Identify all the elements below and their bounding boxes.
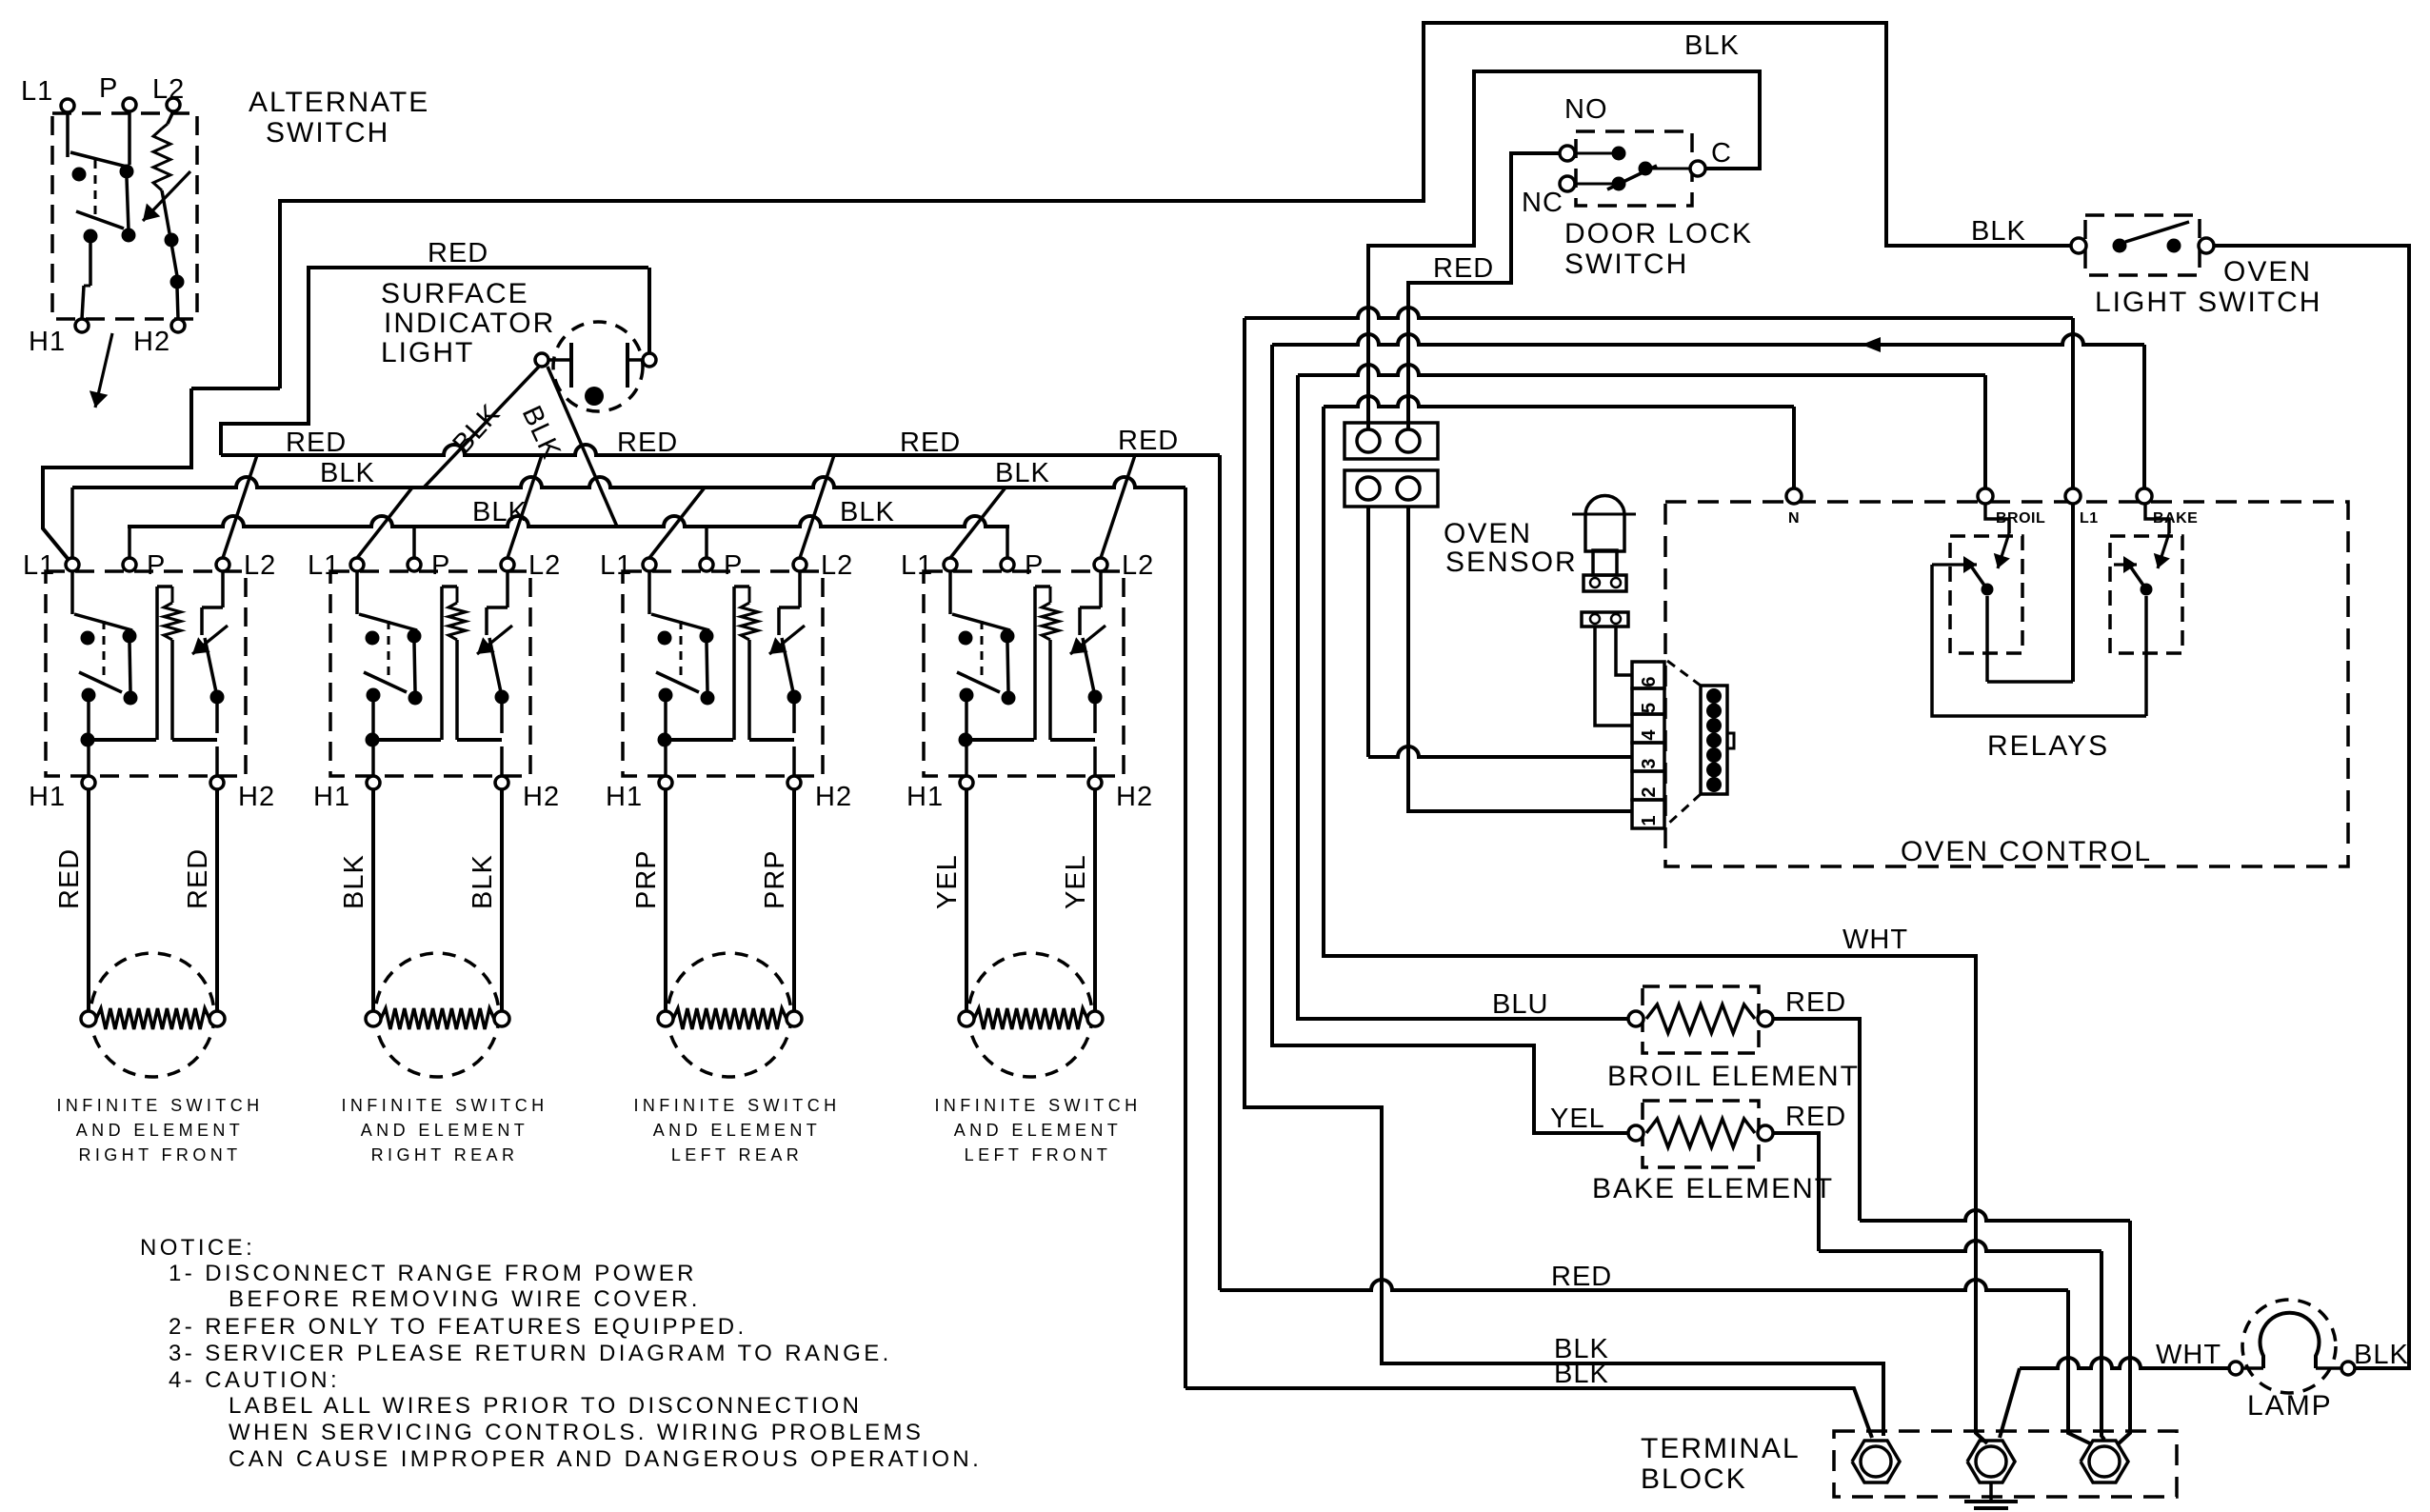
svg-text:RIGHT REAR: RIGHT REAR: [371, 1145, 519, 1164]
svg-text:L2: L2: [244, 550, 276, 581]
svg-text:NOTICE:: NOTICE:: [140, 1235, 255, 1261]
label left rear: [634, 1096, 841, 1164]
svg-text:SWITCH: SWITCH: [1564, 249, 1688, 280]
oven control box: [1665, 502, 2348, 866]
svg-text:6: 6: [1639, 676, 1660, 686]
label BLK bus2 a: [472, 497, 528, 527]
svg-text:4: 4: [1639, 729, 1660, 741]
label LAMP: [2247, 1390, 2333, 1422]
label BLK bus2 b: [840, 497, 895, 527]
wire bus L1 relay: [1245, 308, 2073, 487]
element right rear: [366, 789, 509, 1077]
label right rear: [342, 1096, 548, 1164]
svg-text:YEL: YEL: [1550, 1104, 1605, 1134]
wire bus BROIL relay: [1298, 365, 1985, 487]
svg-text:P: P: [147, 550, 166, 581]
svg-text:RED: RED: [900, 428, 961, 458]
label OVEN SENSOR: [1444, 518, 1578, 578]
wire WHT to lamp: [2000, 1358, 2229, 1438]
svg-text:P: P: [1025, 550, 1044, 581]
svg-text:H2: H2: [133, 327, 170, 357]
wire BLK bus 1: [72, 477, 1185, 487]
svg-text:SWITCH: SWITCH: [266, 117, 389, 149]
svg-text:BLK: BLK: [2354, 1340, 2409, 1370]
wire BLK diagonal 2: [548, 367, 617, 527]
broil element: [1628, 986, 1773, 1053]
svg-text:P: P: [431, 550, 450, 581]
svg-text:L1: L1: [901, 550, 933, 581]
svg-text:AND ELEMENT: AND ELEMENT: [653, 1121, 821, 1140]
svg-text:BLOCK: BLOCK: [1641, 1463, 1747, 1495]
svg-text:LEFT REAR: LEFT REAR: [671, 1145, 803, 1164]
wire RED bus drop: [1218, 455, 1222, 1290]
wire sensor pin4: [1595, 627, 1632, 726]
label ALTERNATE SWITCH: [249, 87, 429, 149]
label left front: [935, 1096, 1142, 1164]
svg-text:DOOR LOCK: DOOR LOCK: [1564, 218, 1753, 249]
svg-text:BLK: BLK: [1971, 216, 2026, 247]
svg-text:LIGHT SWITCH: LIGHT SWITCH: [2095, 287, 2321, 318]
label BLK door lock: [1684, 30, 1740, 61]
wire BLK diagonal 1: [424, 367, 539, 487]
wire BLK bus 1 drop: [1184, 487, 1187, 1388]
svg-text:LABEL ALL WIRES PRIOR TO DISCO: LABEL ALL WIRES PRIOR TO DISCONNECTION: [229, 1393, 862, 1419]
svg-text:2: 2: [1639, 786, 1660, 797]
svg-text:H2: H2: [238, 782, 275, 812]
label OVEN LIGHT SWITCH: [2095, 256, 2321, 318]
label right front: [57, 1096, 264, 1164]
label RED bake: [1785, 1102, 1846, 1132]
svg-text:PRP: PRP: [631, 849, 662, 909]
svg-text:BLK: BLK: [339, 854, 369, 909]
label BAKE ELEMENT: [1592, 1173, 1834, 1204]
svg-text:RED: RED: [286, 428, 347, 458]
svg-text:3- SERVICER PLEASE RETURN DIAG: 3- SERVICER PLEASE RETURN DIAGRAM TO RAN…: [169, 1341, 892, 1366]
svg-text:CAN CAUSE IMPROPER AND DANGERO: CAN CAUSE IMPROPER AND DANGEROUS OPERATI…: [229, 1446, 982, 1472]
svg-text:P: P: [724, 550, 743, 581]
label BLK lamp: [2354, 1340, 2409, 1370]
svg-text:INFINITE SWITCH: INFINITE SWITCH: [634, 1096, 841, 1115]
svg-text:H1: H1: [29, 327, 66, 357]
svg-text:YEL: YEL: [932, 854, 963, 909]
label BLK diag 1: [447, 398, 506, 459]
label RED indicator wire: [428, 238, 488, 269]
notice text: [140, 1235, 982, 1472]
svg-text:L2: L2: [528, 550, 561, 581]
oven sensor: [1572, 496, 1636, 627]
label RED bus 3: [900, 428, 961, 458]
label RED wires: [54, 848, 213, 909]
terminal block: [1834, 1431, 2177, 1497]
terminal BAKE: [2137, 488, 2152, 504]
svg-text:BLK: BLK: [320, 458, 375, 488]
label BLK bottom 2: [1554, 1359, 1609, 1389]
svg-text:RED: RED: [1433, 253, 1494, 284]
wire light switch to lamp: [2214, 246, 2409, 1368]
svg-text:WHT: WHT: [1842, 925, 1908, 955]
svg-text:RED: RED: [617, 428, 678, 458]
svg-text:BROIL ELEMENT: BROIL ELEMENT: [1607, 1061, 1860, 1092]
label YEL wires: [932, 854, 1091, 909]
wire BLK2 to terminal: [1185, 1388, 1872, 1438]
connector header: [1667, 661, 1734, 825]
wire pin1: [1408, 507, 1632, 811]
wire bake red: [1773, 1133, 2104, 1440]
svg-text:OVEN: OVEN: [1444, 518, 1532, 549]
svg-text:BLK: BLK: [840, 497, 895, 527]
svg-text:3: 3: [1639, 758, 1660, 768]
wire C to connector: [1368, 71, 1760, 429]
label OVEN CONTROL: [1901, 836, 2152, 867]
svg-text:BLK: BLK: [468, 854, 498, 909]
wire broil red: [1773, 1019, 2130, 1443]
svg-text:L1: L1: [23, 550, 55, 581]
svg-text:RELAYS: RELAYS: [1987, 730, 2109, 762]
wire switch feeds: [72, 455, 1135, 558]
wire top run to door lock: [280, 23, 2079, 388]
svg-text:WHT: WHT: [2156, 1340, 2221, 1370]
svg-text:RED: RED: [183, 848, 213, 909]
label YEL: [1550, 1104, 1605, 1134]
svg-text:INFINITE SWITCH: INFINITE SWITCH: [342, 1096, 548, 1115]
label PRP wires: [631, 849, 790, 909]
svg-text:L2: L2: [821, 550, 853, 581]
terminal BROIL: [1978, 488, 1993, 504]
svg-text:1- DISCONNECT RANGE FROM POWER: 1- DISCONNECT RANGE FROM POWER: [169, 1261, 697, 1286]
svg-text:OVEN: OVEN: [2223, 256, 2312, 288]
svg-text:L1: L1: [600, 550, 632, 581]
alternate switch: [52, 98, 197, 332]
arrow alternate switch pointer: [90, 333, 112, 408]
svg-text:H1: H1: [606, 782, 643, 812]
label BLK bus1 b: [995, 458, 1050, 488]
svg-text:N: N: [1788, 510, 1800, 527]
label RELAYS: [1987, 730, 2109, 762]
svg-text:TERMINAL: TERMINAL: [1641, 1433, 1801, 1464]
connector blocks: [1344, 423, 1438, 507]
label BLU: [1492, 989, 1548, 1020]
svg-text:LEFT FRONT: LEFT FRONT: [965, 1145, 1112, 1164]
svg-text:5: 5: [1639, 703, 1660, 713]
terminal L1: [2065, 488, 2081, 504]
labels relay terminals: [1788, 510, 2198, 527]
wire bus N: [1324, 396, 1794, 487]
door lock switch: [1560, 131, 1705, 206]
svg-text:RED: RED: [1785, 1102, 1846, 1132]
wire indicator step: [191, 387, 280, 390]
svg-text:BLK: BLK: [1554, 1359, 1609, 1389]
oven light switch: [2071, 215, 2214, 275]
svg-text:RED: RED: [1785, 987, 1846, 1018]
svg-text:L1: L1: [308, 550, 340, 581]
label RED bus 2: [617, 428, 678, 458]
label BLK bus1 a: [320, 458, 375, 488]
svg-text:L2: L2: [1122, 550, 1154, 581]
label RED bottom: [1551, 1262, 1612, 1292]
label TERMINAL BLOCK: [1641, 1433, 1801, 1495]
label WHT lamp: [2156, 1340, 2221, 1370]
infinite switch right rear: [330, 558, 530, 789]
svg-text:L2: L2: [152, 74, 185, 105]
svg-text:H2: H2: [815, 782, 852, 812]
svg-text:OVEN CONTROL: OVEN CONTROL: [1901, 836, 2152, 867]
svg-text:RED: RED: [1551, 1262, 1612, 1292]
svg-text:LIGHT: LIGHT: [381, 337, 474, 368]
svg-text:SENSOR: SENSOR: [1445, 547, 1578, 578]
wire vertical L1-BLK: [1245, 318, 1883, 1436]
svg-text:RIGHT FRONT: RIGHT FRONT: [78, 1145, 241, 1164]
svg-text:H2: H2: [523, 782, 560, 812]
labels door lock: [1522, 94, 1732, 218]
wire vertical BAKE-YEL: [1272, 345, 1629, 1133]
svg-text:RED: RED: [1118, 426, 1179, 456]
element right front: [81, 789, 225, 1077]
wire BLK bus 2: [128, 516, 1009, 527]
infinite switch left rear: [623, 558, 823, 789]
ground: [1964, 1482, 2018, 1512]
svg-text:H1: H1: [906, 782, 944, 812]
svg-text:BAKE ELEMENT: BAKE ELEMENT: [1592, 1173, 1834, 1204]
label BLK wires: [339, 854, 498, 909]
wire sensor pin6: [1616, 627, 1632, 675]
svg-text:H1: H1: [29, 782, 66, 812]
svg-text:WHEN SERVICING CONTROLS. WIRIN: WHEN SERVICING CONTROLS. WIRING PROBLEMS: [229, 1420, 924, 1445]
svg-text:BLK: BLK: [995, 458, 1050, 488]
labels switch terminals: [23, 550, 1154, 812]
svg-text:L1: L1: [2080, 510, 2099, 527]
wire vertical N-WHT: [1324, 407, 1987, 1443]
svg-text:RED: RED: [54, 848, 85, 909]
label DOOR LOCK SWITCH: [1564, 218, 1753, 280]
svg-text:LAMP: LAMP: [2247, 1390, 2333, 1422]
label BLK bottom 1: [1554, 1334, 1609, 1364]
svg-text:BEFORE REMOVING WIRE COVER.: BEFORE REMOVING WIRE COVER.: [229, 1286, 701, 1312]
label SURFACE INDICATOR LIGHT: [381, 278, 555, 368]
svg-text:RED: RED: [428, 238, 488, 269]
svg-text:4- CAUTION:: 4- CAUTION:: [169, 1367, 340, 1393]
wire surface light to red bus: [221, 268, 648, 455]
connector pins 1-6: [1632, 662, 1664, 828]
element left front: [959, 789, 1103, 1077]
label BLK diag 2: [516, 401, 567, 464]
svg-text:H2: H2: [1116, 782, 1153, 812]
label BLK light switch: [1971, 216, 2026, 247]
relay BROIL: [1932, 504, 2073, 682]
surface indicator light: [535, 268, 656, 411]
svg-text:2- REFER ONLY TO FEATURES EQUI: 2- REFER ONLY TO FEATURES EQUIPPED.: [169, 1314, 747, 1340]
svg-text:BLK: BLK: [1684, 30, 1740, 61]
svg-text:INDICATOR: INDICATOR: [384, 308, 555, 339]
svg-text:SURFACE: SURFACE: [381, 278, 529, 309]
wire pin3: [1368, 507, 1632, 757]
svg-text:INFINITE SWITCH: INFINITE SWITCH: [57, 1096, 264, 1115]
svg-text:AND ELEMENT: AND ELEMENT: [954, 1121, 1122, 1140]
infinite switch left front: [924, 558, 1124, 789]
wire NO to connector: [1408, 153, 1561, 429]
svg-text:P: P: [99, 73, 118, 104]
wire RED bus: [221, 445, 1220, 455]
svg-text:ALTERNATE: ALTERNATE: [249, 87, 429, 118]
svg-text:PRP: PRP: [760, 849, 790, 909]
bake element: [1628, 1101, 1773, 1167]
svg-text:C: C: [1711, 138, 1732, 169]
infinite switch right front: [46, 558, 246, 789]
label RED bus 4: [1118, 426, 1179, 456]
label RED door lock: [1433, 253, 1494, 284]
relay BAKE: [1932, 504, 2182, 716]
svg-text:NO: NO: [1564, 94, 1608, 125]
wire RED to terminal: [1220, 1280, 2090, 1443]
label RED broil: [1785, 987, 1846, 1018]
svg-text:NC: NC: [1522, 188, 1564, 218]
svg-text:BLU: BLU: [1492, 989, 1548, 1020]
lamp: [2229, 1300, 2355, 1393]
wire bus BAKE relay: [1272, 334, 2144, 487]
wire indicator to L1 right-front: [43, 388, 191, 561]
element left rear: [658, 789, 802, 1077]
svg-text:H1: H1: [313, 782, 350, 812]
wire vertical BROIL-BLU: [1298, 375, 1629, 1019]
svg-text:AND ELEMENT: AND ELEMENT: [76, 1121, 244, 1140]
terminal N: [1786, 488, 1802, 504]
label RED bus 1: [286, 428, 347, 458]
svg-text:1: 1: [1639, 815, 1660, 826]
svg-text:L1: L1: [21, 76, 53, 107]
arrow bus direction: [1862, 337, 1881, 352]
svg-text:INFINITE SWITCH: INFINITE SWITCH: [935, 1096, 1142, 1115]
label WHT top: [1842, 925, 1908, 955]
label BROIL ELEMENT: [1607, 1061, 1860, 1092]
labels alternate switch terminals: [21, 73, 185, 357]
svg-text:YEL: YEL: [1061, 854, 1091, 909]
svg-text:AND ELEMENT: AND ELEMENT: [361, 1121, 528, 1140]
